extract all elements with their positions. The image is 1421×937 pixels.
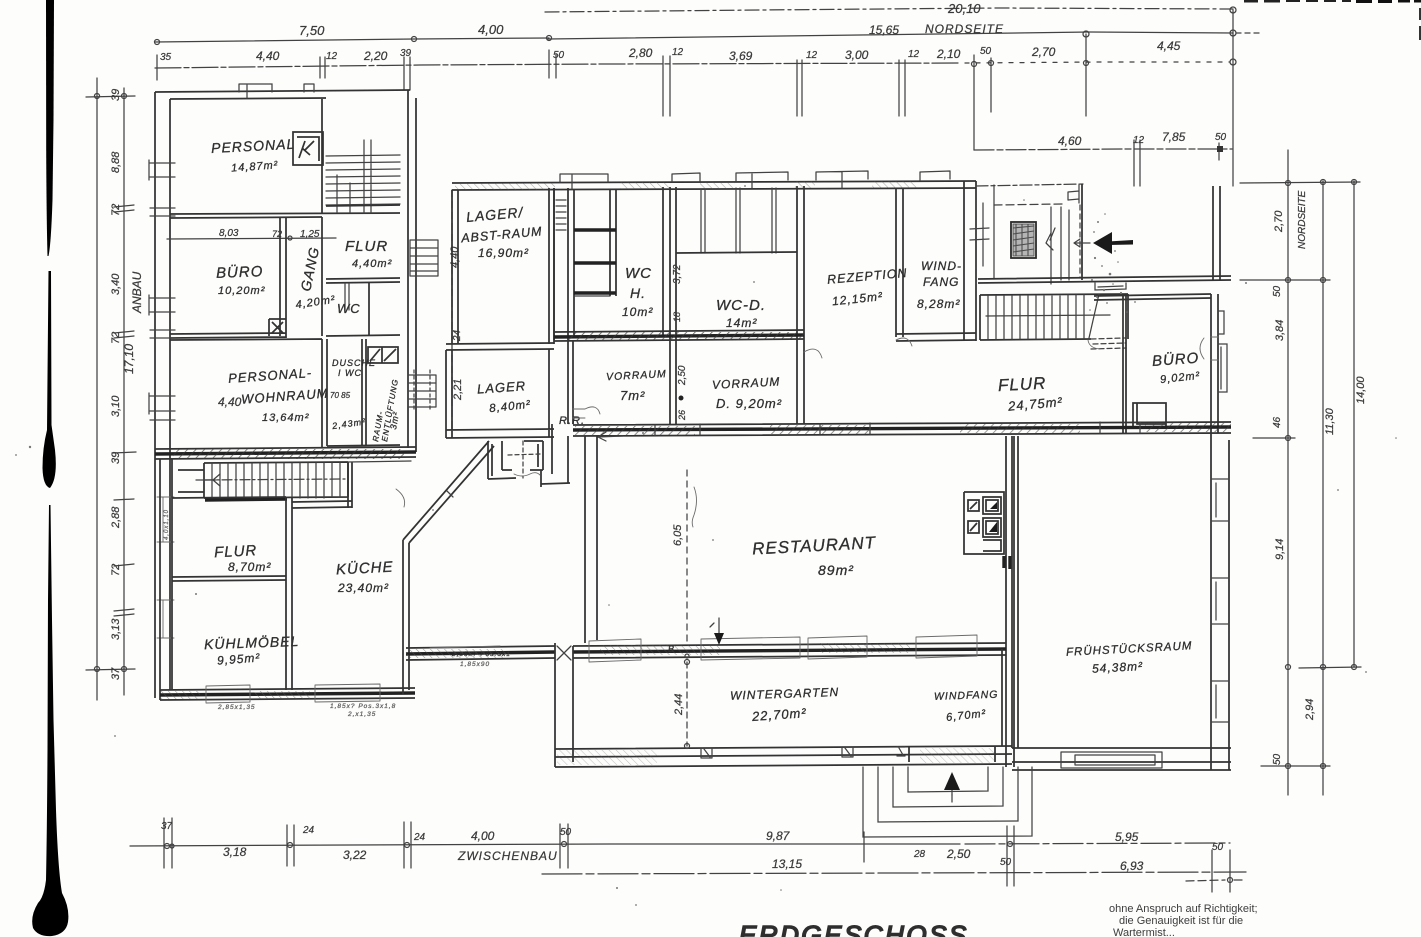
svg-text:2,80: 2,80	[628, 46, 653, 60]
windfang floor opening	[909, 746, 995, 762]
svg-text:2,10: 2,10	[936, 47, 961, 61]
outer west wall	[155, 92, 170, 698]
disclaimer print	[1109, 903, 1258, 937]
east wall with windows	[1211, 433, 1229, 770]
svg-text:9,87: 9,87	[766, 829, 791, 843]
svg-text:FLUR: FLUR	[345, 238, 388, 255]
small tick on diagonal	[447, 491, 453, 497]
svg-text:18: 18	[672, 312, 682, 322]
svg-text:FLUR: FLUR	[214, 542, 258, 561]
room WC	[326, 283, 400, 336]
dim row-2 line	[155, 63, 960, 68]
svg-text:FANG: FANG	[923, 275, 959, 289]
svg-text:2,70: 2,70	[1273, 210, 1285, 233]
svg-text:3,40: 3,40	[110, 273, 122, 295]
svg-text:50: 50	[553, 50, 565, 61]
svg-text:50: 50	[1272, 753, 1283, 765]
svg-text:BÜRO: BÜRO	[1151, 349, 1199, 370]
svg-text:ZWISCHENBAU: ZWISCHENBAU	[457, 849, 558, 863]
FLUR 8,70	[172, 497, 286, 581]
kueche top boundary	[348, 461, 411, 462]
dim line inside	[167, 238, 336, 239]
svg-text:14,00: 14,00	[1355, 376, 1367, 404]
svg-text:24: 24	[413, 832, 426, 843]
svg-text:4,40m²: 4,40m²	[352, 258, 392, 270]
dim 7,50 / 4,00 line	[155, 38, 549, 42]
scanner edge artifact mid	[43, 271, 56, 488]
svg-text:3,10: 3,10	[110, 395, 122, 417]
room VORRAUM 7	[568, 341, 573, 424]
west wall	[1012, 436, 1018, 748]
svg-text:WC: WC	[625, 265, 652, 282]
svg-text:ERDGESCHOSS: ERDGESCHOSS	[739, 920, 969, 937]
svg-text:70 85: 70 85	[330, 391, 351, 400]
Kachelofen stove	[964, 492, 1004, 554]
svg-text:2,20: 2,20	[363, 49, 388, 63]
svg-text:3,00: 3,00	[845, 48, 869, 62]
svg-text:4,40: 4,40	[449, 246, 461, 268]
svg-text:die Genauigkeit ist für die: die Genauigkeit ist für die	[1119, 915, 1243, 927]
svg-text:50: 50	[1212, 842, 1224, 853]
main staircase	[980, 294, 1128, 340]
wall between flur/kuehl and kueche	[286, 497, 292, 690]
svg-text:NORDSEITE: NORDSEITE	[1297, 190, 1308, 249]
long wall below stairwell	[978, 276, 1231, 283]
svg-text:4,00: 4,00	[471, 829, 495, 843]
wall hatch fills	[160, 181, 1231, 765]
south wall	[1012, 748, 1231, 770]
svg-text:H.: H.	[630, 285, 646, 301]
svg-text:13,64m²: 13,64m²	[262, 412, 309, 424]
svg-text:26: 26	[677, 410, 687, 421]
svg-text:24: 24	[302, 825, 315, 836]
east wall	[1006, 436, 1014, 767]
south wall west block	[160, 693, 415, 695]
svg-text:2,85x1,35: 2,85x1,35	[217, 704, 256, 711]
room LAGER/ABST-RAUM	[452, 188, 554, 344]
svg-text:2,70: 2,70	[1031, 45, 1056, 59]
svg-text:2,50: 2,50	[946, 847, 971, 861]
svg-text:10m²: 10m²	[622, 305, 653, 319]
svg-text:3,13: 3,13	[110, 618, 122, 640]
svg-text:2,88: 2,88	[110, 506, 122, 529]
big entry arrow	[1093, 232, 1112, 254]
svg-text:BÜRO: BÜRO	[216, 262, 264, 282]
svg-text:3,22: 3,22	[343, 848, 367, 862]
svg-text:3,84: 3,84	[1274, 320, 1286, 341]
svg-text:8,03: 8,03	[219, 228, 239, 239]
svg-text:11,30: 11,30	[1324, 407, 1336, 435]
dashed centerline	[686, 470, 688, 643]
north wall with windows	[452, 181, 976, 190]
small stair upper	[410, 240, 438, 276]
spine wall wc-h / wc-d	[670, 187, 676, 424]
room WINDFANG N	[964, 181, 976, 341]
window north wall	[239, 84, 314, 98]
svg-text:39: 39	[110, 89, 122, 101]
window openings south wall	[206, 684, 380, 703]
svg-text:2,44: 2,44	[673, 694, 685, 716]
svg-text:28: 28	[913, 849, 926, 860]
north wall anbau	[155, 90, 410, 99]
door mark buero	[269, 319, 286, 336]
heavy wall under WC	[554, 335, 804, 337]
svg-text:72: 72	[110, 332, 122, 344]
room LAGER 8,40	[446, 349, 554, 438]
svg-text:7,85: 7,85	[1162, 130, 1186, 144]
svg-text:7m²: 7m²	[620, 388, 645, 403]
svg-text:I WC: I WC	[338, 368, 362, 378]
svg-text:35: 35	[160, 52, 172, 63]
door mark below wall	[1095, 283, 1126, 290]
svg-text:NORDSEITE: NORDSEITE	[925, 22, 1004, 36]
buero top wall	[1094, 294, 1211, 300]
svg-text:23,40m²: 23,40m²	[337, 581, 389, 595]
room REZEPTION	[896, 188, 903, 337]
svg-text:37: 37	[110, 667, 122, 680]
svg-text:Wartermist...: Wartermist...	[1113, 927, 1175, 937]
svg-text:5,95: 5,95	[1115, 830, 1139, 844]
room PERSONAL-WOHNRAUM	[170, 339, 322, 448]
buero left wall	[1123, 296, 1126, 433]
svg-text:WC: WC	[337, 301, 361, 316]
window marks west wall	[150, 163, 175, 420]
dark box in stairwell	[1011, 222, 1036, 258]
windfang s partition	[1001, 649, 1003, 746]
svg-text:2,21: 2,21	[452, 379, 464, 401]
svg-text:4,40: 4,40	[256, 49, 280, 63]
svg-text:4,0x1,10: 4,0x1,10	[164, 509, 170, 540]
vestibule lobby kitchen->restaurant	[488, 441, 543, 479]
svg-text:WINDFANG: WINDFANG	[934, 689, 999, 703]
svg-text:89m²: 89m²	[818, 562, 854, 578]
svg-text:9,14: 9,14	[1274, 539, 1286, 560]
west wall	[555, 643, 573, 767]
dim 15,65 NORDSEITE line	[548, 32, 1233, 39]
up arrow	[951, 775, 953, 795]
svg-text:12: 12	[326, 51, 338, 62]
chimney symbol	[293, 132, 323, 165]
east outer wall	[1211, 294, 1218, 433]
buero closet	[1133, 403, 1166, 428]
vent squares	[368, 347, 398, 363]
svg-text:50: 50	[1000, 857, 1012, 868]
svg-text:8,70m²: 8,70m²	[228, 560, 271, 574]
landing wall verticals	[1213, 186, 1220, 280]
svg-text:4,40: 4,40	[218, 395, 242, 409]
shaft between lager and wc	[554, 188, 568, 340]
svg-text:4,60: 4,60	[1058, 134, 1082, 148]
svg-text:1,85x90: 1,85x90	[460, 661, 490, 668]
svg-text:WC-D.: WC-D.	[716, 297, 766, 314]
small stair lower (ladder)	[408, 375, 436, 407]
svg-text:10,20m²: 10,20m²	[218, 285, 265, 297]
south wall with windows	[573, 649, 1006, 652]
west wall	[585, 436, 597, 643]
svg-text:46: 46	[1272, 416, 1283, 428]
room BUERO	[170, 218, 286, 338]
lager bottom wall	[446, 343, 554, 350]
svg-text:12: 12	[806, 50, 818, 61]
svg-text:7,50: 7,50	[299, 23, 325, 38]
door arcs	[573, 407, 600, 418]
svg-text:50: 50	[1272, 285, 1283, 297]
svg-text:ohne Anspruch auf Richtigkeit;: ohne Anspruch auf Richtigkeit;	[1109, 903, 1258, 915]
svg-text:12: 12	[672, 47, 684, 58]
stair north (in anbau)	[326, 140, 400, 213]
svg-text:20,10: 20,10	[947, 1, 981, 16]
svg-text:50: 50	[980, 46, 992, 57]
room WC-D	[797, 186, 804, 424]
svg-text:D. 9,20m²: D. 9,20m²	[716, 396, 782, 411]
svg-text:3,72: 3,72	[672, 264, 683, 284]
dim inside	[686, 662, 688, 746]
svg-text:13,15: 13,15	[772, 857, 802, 871]
svg-text:FLUR: FLUR	[998, 374, 1047, 396]
svg-text:6,93: 6,93	[1120, 859, 1144, 873]
top-right corner scanner dashes	[1356, 0, 1421, 3]
south wall anbau	[155, 452, 416, 454]
scan speckle noise	[15, 185, 1397, 906]
tick verticals on row-2	[157, 10, 1233, 186]
svg-text:12: 12	[908, 49, 920, 60]
wall south of kitchen to wintergarten	[406, 652, 555, 654]
svg-text:ANBAU: ANBAU	[130, 271, 144, 314]
room DUSCHE WC	[327, 339, 400, 446]
room WC H	[574, 187, 663, 336]
stair flight vertical	[1051, 207, 1069, 284]
inner dashed landing line	[994, 204, 1062, 205]
svg-text:2,50: 2,50	[677, 365, 688, 386]
svg-text:8,88: 8,88	[110, 151, 122, 173]
svg-text:15,65: 15,65	[869, 23, 899, 37]
svg-text:4,45: 4,45	[1157, 39, 1181, 53]
south corridor wall	[573, 427, 1231, 430]
dim 4,60 / 7,85 line	[974, 149, 1232, 150]
svg-text:8,28m²: 8,28m²	[917, 297, 960, 311]
svg-text:WIND-: WIND-	[921, 259, 962, 273]
svg-text:2,x1,35: 2,x1,35	[347, 711, 376, 718]
svg-text:2,94: 2,94	[1304, 699, 1316, 721]
dim 20,10 line	[545, 8, 1233, 12]
room PERSONAL	[170, 99, 400, 218]
svg-text:72: 72	[110, 204, 122, 216]
scanner edge artifact low	[32, 505, 68, 936]
svg-text:3,18: 3,18	[223, 845, 247, 859]
svg-text:1,85x? Pos.3x1,8: 1,85x? Pos.3x1,8	[330, 703, 396, 710]
svg-text:54,38m²: 54,38m²	[1092, 659, 1144, 676]
east wall of anbau	[408, 90, 416, 452]
south wall triple	[555, 746, 1012, 767]
scanner edge artifact top	[46, 0, 54, 256]
svg-text:39: 39	[110, 452, 122, 464]
svg-text:37: 37	[161, 821, 173, 832]
door arrow small	[1074, 239, 1090, 247]
small down arrow	[718, 618, 720, 636]
svg-text:1,25: 1,25	[300, 229, 320, 240]
svg-text:3,69: 3,69	[729, 49, 753, 63]
kueche east wall: diagonal + vertical	[403, 441, 494, 694]
room RAUMENTLUEFTUNG	[365, 339, 367, 446]
svg-text:50: 50	[560, 827, 572, 838]
svg-text:4,00: 4,00	[478, 22, 504, 37]
west wall continuation	[160, 459, 172, 700]
room FLUR 4,40	[322, 205, 400, 336]
svg-text:KÜCHE: KÜCHE	[336, 558, 394, 579]
svg-text:14m²: 14m²	[726, 316, 757, 330]
svg-text:12: 12	[1133, 135, 1145, 146]
outdoor stair hatched	[178, 462, 348, 498]
svg-text:17,10: 17,10	[122, 344, 136, 374]
svg-text:6,05: 6,05	[672, 524, 684, 546]
svg-text:50: 50	[1215, 132, 1227, 143]
door dark below stove	[1004, 556, 1010, 569]
svg-text:72: 72	[110, 564, 122, 576]
svg-text:16,90m²: 16,90m²	[478, 246, 529, 260]
